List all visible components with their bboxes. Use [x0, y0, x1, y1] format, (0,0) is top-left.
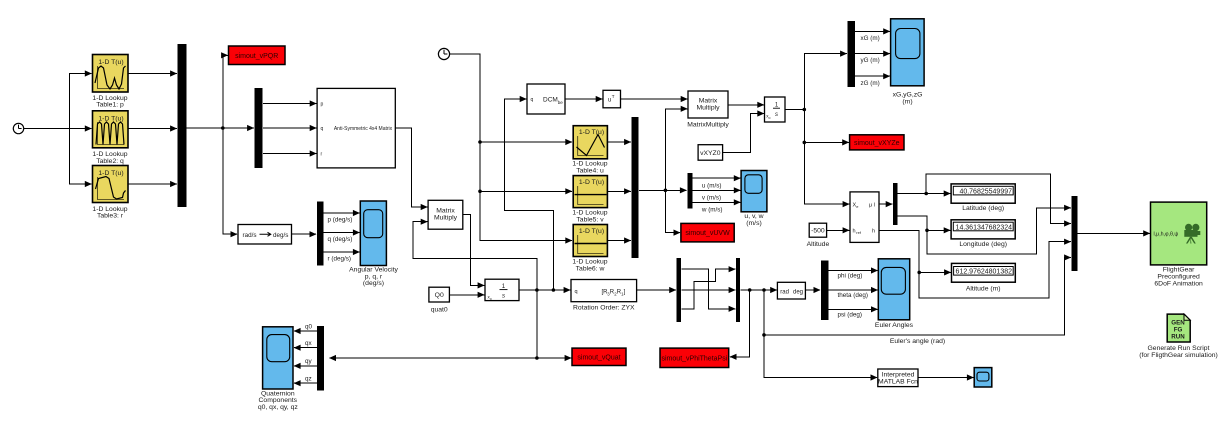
wire q to simout_vQuat: [537, 357, 571, 359]
svg-text:Table1: p: Table1: p: [96, 102, 124, 109]
svg-text:q: q: [575, 289, 578, 295]
wire Integrator xyz out to junction: [785, 109, 804, 111]
svg-text:deg/s: deg/s: [273, 232, 288, 239]
junction q out a: [535, 288, 539, 292]
conversion block rad to deg: [777, 282, 805, 299]
svg-text:q (deg/s): q (deg/s): [328, 236, 353, 243]
svg-text:Altitude: Altitude: [807, 241, 830, 248]
svg-text:(m/s): (m/s): [746, 220, 761, 227]
svg-text:1-D T(u): 1-D T(u): [579, 228, 604, 235]
wire uvw up to MatrixMultiply in2: [665, 109, 687, 191]
wire latitude to display: [897, 193, 950, 195]
wire theta (deg): [828, 290, 877, 299]
wire psi (deg): [828, 309, 877, 318]
wire Demux1 q to Anti-Symmetric: [263, 127, 316, 129]
svg-text:w (m/s): w (m/s): [701, 206, 723, 213]
to-workspace block simout_vXYZe: [850, 135, 904, 150]
display Altitude (m): [952, 263, 1016, 292]
wire Q0 to Integrator xo: [450, 294, 485, 296]
svg-text:Table3: r: Table3: r: [97, 213, 124, 220]
mux Mux1 pqr: [177, 44, 186, 207]
to-workspace block simout_vPhiThetaPsi: [660, 348, 729, 367]
wire qz: [294, 376, 317, 384]
wire longitude to final mux in1: [927, 208, 1071, 254]
conversion block rad/s to deg/s: [238, 225, 292, 245]
lookup table block 1-D Lookup Table4: u: [572, 126, 607, 175]
svg-text:simout_vUVW: simout_vUVW: [685, 230, 730, 237]
svg-text:Latitude (deg): Latitude (deg): [962, 205, 1004, 212]
wire -500 to LLA href: [827, 229, 850, 231]
junction altitude: [917, 271, 921, 275]
wire Table6 to Mux uvw: [608, 240, 631, 242]
svg-text:GEN: GEN: [1171, 319, 1185, 326]
wire Table4 to Mux uvw: [608, 141, 631, 143]
lookup table block 1-D Lookup Table6: w: [572, 225, 607, 273]
wire down to Flat Earth to LLA Xe: [804, 142, 849, 204]
svg-text:Table6: w: Table6: w: [576, 265, 605, 272]
demux reorder A: [677, 258, 682, 322]
to-workspace block simout_vUVW: [681, 223, 734, 242]
to-workspace block simout_vPQR: [229, 46, 286, 65]
wire q0: [294, 323, 317, 331]
subsystem Anti-Symmetric 4x4 Matrix: [317, 88, 395, 167]
display Latitude (deg): [951, 184, 1015, 212]
clock Clock2: [438, 48, 449, 59]
wire w (m/s): [693, 202, 741, 213]
wire Mux1 to Demux1: [187, 127, 254, 129]
wire branch up to simout_vPQR: [223, 55, 228, 128]
wire to Table5 v: [480, 190, 572, 192]
wire DCM to transpose: [565, 98, 602, 100]
svg-text:yG (m): yG (m): [861, 57, 880, 64]
wire q down to quaternion components and simout: [536, 290, 538, 358]
svg-text:-500: -500: [811, 228, 825, 235]
wire final mux to FlightGear: [1078, 232, 1150, 234]
svg-text:Altitude (m): Altitude (m): [966, 286, 1001, 293]
svg-text:RUN: RUN: [1171, 333, 1185, 340]
demux euler deg: [821, 261, 829, 320]
function block Interpreted MATLAB Fcn: [878, 369, 918, 387]
wire transpose to MatrixMultiply: [621, 98, 688, 100]
junction on pqr wire: [221, 126, 225, 130]
svg-text:FG: FG: [1174, 326, 1183, 333]
junction latitude: [924, 192, 928, 196]
svg-text:qx: qx: [305, 340, 313, 347]
wire Clock1 to Lookup Table2: [24, 128, 92, 130]
junction q bottom tee: [535, 356, 539, 360]
svg-text:simout_vPhiThetaPsi: simout_vPhiThetaPsi: [662, 356, 728, 363]
svg-text:Q0: Q0: [435, 292, 444, 299]
wire zG (m): [855, 76, 890, 87]
svg-text:(m): (m): [902, 98, 912, 105]
svg-text:be: be: [558, 100, 564, 105]
svg-text:h: h: [853, 229, 856, 235]
svg-text:vXYZ0: vXYZ0: [700, 150, 721, 157]
wire Table1 to Mux: [129, 73, 177, 75]
wire q feedback to Matrix Multiply in2: [413, 222, 537, 290]
svg-text:l,μ,h,φ,θ,ψ: l,μ,h,φ,θ,ψ: [1154, 232, 1179, 238]
svg-text:qz: qz: [305, 376, 312, 383]
integrator block position 1/s: [765, 97, 786, 122]
wire qx: [294, 340, 317, 348]
wire longitude to display: [897, 216, 950, 230]
constant block vXYZo: [698, 145, 723, 161]
constant block -500: [807, 223, 830, 248]
svg-text:u (m/s): u (m/s): [702, 182, 722, 189]
svg-text:Longitude (deg): Longitude (deg): [959, 241, 1007, 248]
wire Clock2 down to lookup tables u v w: [450, 54, 572, 241]
junction longitude: [925, 229, 929, 233]
clock Clock1: [13, 123, 23, 133]
svg-text:theta (deg): theta (deg): [838, 292, 868, 299]
product block Matrix Multiply: [428, 200, 463, 229]
svg-text:h: h: [872, 229, 875, 235]
wire to Table4 u: [480, 141, 572, 143]
svg-text:simout_vPQR: simout_vPQR: [235, 53, 278, 60]
demux Demux xyz: [848, 21, 856, 87]
junction clock2 u: [478, 140, 482, 144]
svg-text:14.361347682324: 14.361347682324: [956, 224, 1013, 231]
svg-text:Multiply: Multiply: [696, 105, 720, 112]
junction q out b: [552, 288, 556, 292]
wire r (deg/s) to scope: [323, 252, 359, 263]
svg-text:o: o: [490, 297, 492, 301]
svg-text:DCM: DCM: [543, 97, 558, 104]
svg-text:μ l: μ l: [869, 202, 875, 208]
svg-text:Matrix: Matrix: [436, 207, 455, 214]
wire LLA mul to demux: [879, 203, 892, 205]
svg-text:MATLAB Fcn: MATLAB Fcn: [878, 379, 918, 386]
svg-text:s: s: [502, 293, 505, 300]
wire rad/s-deg/s to Demux2: [292, 233, 317, 235]
wire h to altitude display: [879, 230, 951, 272]
wire q (deg/s) to scope: [323, 233, 359, 244]
svg-text:1-D T(u): 1-D T(u): [98, 115, 123, 122]
lookup table block 1-D Lookup Table2: q: [92, 111, 128, 165]
integrator block quaternion 1/s: [485, 279, 519, 301]
scope small: [974, 368, 992, 387]
junction euler rad: [762, 288, 766, 292]
wire reorder theta straight: [682, 289, 736, 291]
svg-text:Interpreted: Interpreted: [882, 372, 915, 379]
svg-text:1-D T(u): 1-D T(u): [579, 179, 604, 186]
wire q feedback to DCM: [504, 99, 553, 290]
scope u, v, w (m/s): [741, 171, 767, 227]
svg-text:q: q: [531, 97, 534, 103]
svg-text:q: q: [321, 126, 324, 132]
svg-text:phi (deg): phi (deg): [838, 273, 863, 280]
to-workspace block simout_vQuat: [572, 348, 626, 365]
demux small uvw scope feed: [687, 173, 692, 208]
product block MatrixMultiply: [687, 91, 729, 129]
svg-text:(deg/s): (deg/s): [363, 280, 384, 287]
wire Integrator q to Rotation Order: [520, 289, 571, 291]
wire u (m/s): [693, 178, 741, 189]
scope Angular Velocity p, q, r (deg/s): [349, 201, 398, 287]
demux Demux mu l: [893, 183, 897, 225]
wire euler rad down to Interpreted MATLAB Fcn: [764, 290, 877, 378]
wire latitude to final mux in2: [926, 174, 1071, 224]
wire down-left into simout_vPhiThetaPsi: [730, 290, 750, 357]
wire reorder phi to in1: [682, 269, 736, 309]
transformation block Flat Earth to LLA: [850, 192, 879, 243]
svg-text:quat0: quat0: [431, 307, 448, 314]
svg-text:v (m/s): v (m/s): [702, 194, 721, 201]
svg-text:q0, qx, qy, qz: q0, qx, qy, qz: [258, 404, 299, 411]
wire uvw down to simout_vUVW: [665, 190, 680, 232]
wire Rotation Order to reorder demux: [637, 289, 676, 291]
demux Demux2 deg/s: [317, 202, 324, 266]
svg-text:612.97624801382: 612.97624801382: [956, 269, 1013, 276]
junction clock2 v: [478, 190, 482, 194]
svg-text:Table2: q: Table2: q: [96, 158, 124, 165]
svg-text:T: T: [612, 94, 615, 99]
svg-text:Anti-Symmetric 4x4 Matrix: Anti-Symmetric 4x4 Matrix: [334, 126, 393, 132]
wire euler rad out: [741, 289, 777, 291]
wire Euler's angle (rad) to final mux in4: [764, 258, 1071, 346]
transformation block DCMbe: [527, 84, 565, 114]
svg-text:1-D T(u): 1-D T(u): [579, 129, 604, 136]
block Rotation Order ZYX: [571, 280, 637, 312]
svg-text:Matrix: Matrix: [699, 97, 718, 104]
svg-text:Rotation Order: ZYX: Rotation Order: ZYX: [573, 305, 635, 312]
wire h to final mux in3: [919, 242, 1071, 298]
svg-text:Euler Angles: Euler Angles: [875, 322, 914, 329]
svg-text:40.76825549997: 40.76825549997: [959, 188, 1012, 195]
svg-text:psi (deg): psi (deg): [838, 312, 863, 319]
svg-text:deg: deg: [793, 289, 803, 295]
svg-text:1-D T(u): 1-D T(u): [98, 59, 123, 66]
wire phi (deg): [828, 271, 877, 280]
junction xyz: [803, 108, 807, 112]
svg-text:Table5: v: Table5: v: [576, 216, 604, 223]
scope Euler Angles: [875, 259, 914, 329]
junction to simout_vPhiThetaPsi: [748, 288, 752, 292]
wire Demux1 r to Anti-Symmetric: [263, 153, 316, 155]
svg-text:Euler's angle (rad): Euler's angle (rad): [890, 338, 945, 345]
wire vXYZo to Integrator xo: [723, 114, 764, 153]
svg-text:s: s: [775, 112, 778, 118]
wire Matrix Multiply to Integrator q: [463, 215, 484, 286]
wire Anti-Symmetric to Matrix Multiply in1: [396, 128, 428, 207]
svg-text:1-D T(u): 1-D T(u): [98, 170, 123, 177]
svg-text:q0: q0: [305, 323, 313, 330]
wire qy: [294, 358, 317, 366]
svg-text:rad/s: rad/s: [243, 232, 257, 239]
display Longitude (deg): [951, 220, 1015, 248]
mux Mux uvw: [632, 117, 639, 258]
wire Table3 to Mux: [129, 183, 177, 185]
wire to simout_vXYZe: [804, 110, 849, 143]
svg-text:o: o: [769, 116, 771, 120]
wire Mux uvw to small demux: [639, 189, 687, 191]
svg-text:Multiply: Multiply: [434, 215, 458, 222]
svg-text:Table4: u: Table4: u: [576, 167, 604, 174]
wire branch down to rad/s to deg/s: [223, 128, 237, 234]
svg-text:simout_vXYZe: simout_vXYZe: [854, 140, 900, 147]
wire p (deg/s) to scope: [323, 213, 359, 224]
mux final lla euler: [1072, 196, 1078, 271]
junction euler rad to flightgear: [762, 333, 766, 337]
script block Generate Run Script GEN FG RUN: [1139, 314, 1218, 359]
svg-text:Generate Run Script: Generate Run Script: [1148, 345, 1210, 352]
junction to simout_vXYZe: [803, 141, 807, 145]
scope xG,yG,zG (m): [891, 19, 925, 106]
wire up to Demux xG yG zG: [804, 54, 847, 110]
wire v (m/s): [693, 190, 741, 201]
wire branch to Lookup Table3: [70, 129, 92, 185]
svg-text:simout_vQuat: simout_vQuat: [577, 355, 620, 362]
constant block Q0: [429, 287, 450, 313]
lookup table block 1-D Lookup Table1: p: [92, 55, 128, 109]
wire reorder psi to in3: [682, 269, 736, 309]
svg-text:qy: qy: [305, 358, 313, 365]
wire MatrixMultiply to Integrator xyz: [728, 104, 764, 106]
demux Quaternion Components: [317, 326, 324, 390]
math block transpose uT: [603, 90, 621, 108]
svg-text:1: 1: [502, 283, 506, 290]
wire rad-deg to euler demux: [806, 289, 821, 291]
wire Table2 to Mux: [129, 128, 177, 130]
wire yG (m): [855, 54, 890, 65]
svg-text:rad: rad: [780, 289, 789, 295]
wire Demux1 p to Anti-Symmetric: [263, 103, 316, 105]
mux reorder B: [736, 258, 740, 322]
wire Fcn to small scope: [918, 377, 973, 379]
scope Quaternion Components q0 qx qy qz: [258, 327, 299, 411]
demux Demux1 pqr: [255, 88, 263, 168]
svg-text:p (deg/s): p (deg/s): [328, 217, 353, 224]
svg-text:r (deg/s): r (deg/s): [328, 256, 351, 263]
svg-text:MatrixMultiply: MatrixMultiply: [687, 122, 729, 129]
svg-text:xG (m): xG (m): [861, 35, 880, 42]
lookup table block 1-D Lookup Table3: r: [92, 166, 128, 220]
lookup table block 1-D Lookup Table5: v: [572, 176, 607, 224]
svg-text:6DoF Animation: 6DoF Animation: [1154, 280, 1203, 287]
wire Table5 to Mux uvw: [608, 190, 631, 192]
svg-text:zG (m): zG (m): [861, 80, 880, 87]
subsystem FlightGear Preconfigured 6DoF Animation: [1151, 202, 1207, 287]
wire xG (m): [855, 31, 890, 42]
svg-text:p: p: [321, 102, 324, 108]
wire q to Quaternion Components demux (leftward): [329, 357, 537, 359]
wire branch to Lookup Table1: [70, 74, 92, 129]
svg-text:(for FligthGear simulation): (for FligthGear simulation): [1139, 352, 1218, 359]
junction uvw: [664, 189, 668, 193]
